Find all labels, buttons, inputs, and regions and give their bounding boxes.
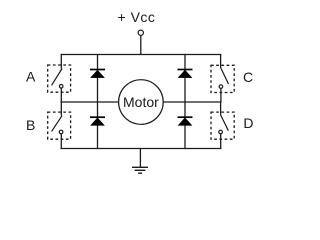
ground bar 1 bbox=[132, 166, 148, 168]
ground stem bbox=[139, 149, 141, 168]
Vcc terminal bbox=[138, 30, 143, 35]
wire mid node into switch D bbox=[220, 101, 222, 115]
wire left diode column lower bbox=[97, 102, 99, 149]
wire switch B to bottom rail bbox=[60, 134, 62, 149]
switch C dashed enclosure bbox=[211, 65, 234, 92]
wire motor to mid right bbox=[163, 101, 221, 103]
ground bar 2 bbox=[135, 169, 146, 171]
switch A dashed enclosure bbox=[48, 65, 71, 92]
switch D contact bbox=[219, 130, 223, 134]
svg-text:Motor: Motor bbox=[123, 94, 159, 110]
diode D4 cathode bar bbox=[178, 116, 193, 118]
diode D2 cathode bar bbox=[90, 116, 105, 118]
wire bottom rail bbox=[61, 148, 222, 150]
diode D1 cathode bar bbox=[90, 69, 105, 71]
wire right diode column upper bbox=[184, 54, 186, 102]
wire left rail into switch A bbox=[60, 54, 62, 69]
wire right diode column lower bbox=[184, 102, 186, 149]
diode D4 anode triangle bbox=[178, 118, 191, 125]
wire switch C to mid node bbox=[220, 88, 222, 102]
svg-text:+ Vcc: + Vcc bbox=[118, 9, 156, 25]
switch B dashed enclosure bbox=[48, 112, 71, 139]
switch A contact bbox=[59, 85, 63, 89]
wire mid left to motor bbox=[61, 101, 119, 103]
diode D3 cathode bar bbox=[178, 69, 193, 71]
wire mid node into switch B bbox=[60, 101, 62, 115]
switch A blade bbox=[52, 69, 63, 86]
switch D blade bbox=[221, 115, 229, 131]
switch C contact bbox=[219, 85, 223, 89]
wire left diode column upper bbox=[97, 54, 99, 102]
wire switch D to bottom rail bbox=[220, 134, 222, 149]
diode D2 anode triangle bbox=[91, 118, 104, 125]
diode D3 anode triangle bbox=[178, 70, 191, 77]
switch C blade bbox=[221, 68, 229, 85]
svg-text:C: C bbox=[243, 69, 253, 85]
wire right rail into switch C bbox=[220, 54, 222, 68]
wire switch A to mid node bbox=[60, 88, 62, 103]
diode D1 anode triangle bbox=[91, 70, 104, 77]
wire Vcc to top rail bbox=[140, 35, 142, 54]
ground bar 3 bbox=[138, 172, 142, 174]
svg-text:B: B bbox=[26, 117, 35, 133]
switch B blade bbox=[52, 116, 63, 132]
motor M1 body bbox=[119, 80, 164, 125]
switch B contact bbox=[59, 130, 63, 134]
switch D dashed enclosure bbox=[211, 112, 234, 139]
wire top rail bbox=[61, 54, 222, 56]
svg-text:A: A bbox=[26, 69, 36, 85]
svg-text:D: D bbox=[243, 115, 253, 131]
